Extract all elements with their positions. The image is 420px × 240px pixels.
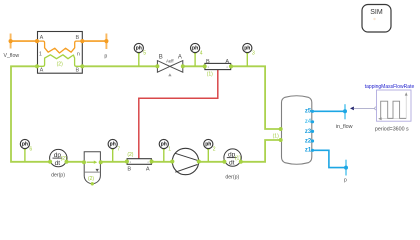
svg-text:V_flow: V_flow: [4, 53, 20, 59]
wire green dp1 to accumulator: [66, 161, 84, 163]
wire green pipe 1 to tank upper port: [231, 66, 281, 129]
svg-text:1: 1: [39, 51, 42, 57]
svg-text:p: p: [344, 178, 347, 184]
boundary V_flow terminal: [4, 34, 20, 60]
accumulator vessel (2): [82, 152, 103, 186]
SIM block: [362, 5, 391, 33]
svg-text:Aeff: Aeff: [166, 59, 174, 64]
wire green pump to dp2: [199, 161, 224, 163]
svg-text:B: B: [75, 35, 79, 41]
sensor ph4: [191, 43, 203, 66]
svg-text:SIM: SIM: [370, 9, 383, 16]
wire green dp2 to tank lower port: [241, 140, 280, 162]
svg-text:A: A: [225, 59, 229, 65]
svg-text:A: A: [178, 54, 182, 60]
connector line source to arrow: [354, 107, 375, 109]
in_flow terminal: [336, 104, 353, 130]
svg-text:2: 2: [213, 147, 216, 153]
tank lower port: [279, 138, 283, 142]
sensor ph7: [108, 139, 120, 161]
svg-text:ph: ph: [22, 142, 28, 148]
svg-text:B: B: [206, 59, 210, 65]
svg-text:z2: z2: [305, 138, 312, 144]
svg-text:B: B: [159, 54, 163, 60]
svg-text:A: A: [40, 35, 44, 41]
arrow into in_flow: [350, 107, 354, 111]
pump: [170, 148, 201, 174]
svg-text:(1): (1): [207, 72, 213, 78]
source port circle: [375, 107, 378, 110]
svg-text:ph: ph: [205, 142, 211, 148]
svg-text:ph: ph: [110, 142, 116, 148]
sensor dp/dt (2) der(p): [48, 149, 68, 178]
svg-text:4: 4: [200, 51, 203, 57]
sensor dp/dt (1) der(p): [222, 149, 242, 180]
wire green valve to pipe 1: [183, 65, 205, 67]
sensor ph2: [204, 139, 216, 161]
svg-text:in_flow: in_flow: [336, 124, 353, 130]
svg-text:(2): (2): [57, 62, 63, 68]
svg-text:5: 5: [143, 51, 146, 57]
sensor ph3: [243, 43, 255, 66]
svg-text:z1: z1: [305, 148, 312, 154]
pipe tube (1) top: [203, 59, 234, 78]
svg-text:3: 3: [252, 51, 255, 57]
valve Aeff: [155, 54, 184, 76]
wire cyan z5 to in_flow terminal: [313, 110, 346, 112]
wire orange HX to p boundary: [82, 40, 106, 42]
p terminal bottom: [344, 160, 348, 184]
svg-text:tappingMassFlowRate: tappingMassFlowRate: [365, 84, 415, 90]
tank (1): [282, 96, 312, 165]
boundary p terminal: [104, 34, 108, 60]
tank upper port: [279, 127, 283, 131]
svg-text:n: n: [77, 51, 80, 57]
svg-text:z3: z3: [305, 129, 312, 135]
sensor ph6: [20, 139, 32, 161]
svg-text:ph: ph: [161, 142, 167, 148]
tank level labels z5-z1: [305, 109, 314, 154]
pipe tube (2) bottom: [125, 152, 154, 172]
heat exchanger (2): [35, 32, 85, 74]
svg-text:ph: ph: [136, 46, 142, 52]
svg-text:dt: dt: [55, 160, 61, 167]
wire green accumulator to pipe 2: [101, 161, 127, 163]
svg-text:A: A: [146, 166, 150, 172]
svg-text:z4: z4: [305, 119, 312, 125]
svg-text:z5: z5: [305, 109, 312, 115]
sensor ph5: [134, 43, 146, 66]
svg-text:(1): (1): [273, 133, 279, 139]
svg-text:(2): (2): [88, 176, 94, 182]
svg-text:(1): (1): [235, 156, 241, 162]
svg-text:(2): (2): [127, 152, 133, 158]
sensor ph1: [159, 139, 171, 161]
svg-text:A: A: [40, 68, 44, 74]
wire orange V_flow to HX: [11, 40, 37, 42]
svg-text:ph: ph: [244, 46, 250, 52]
wire green HX left down to bottom line: [11, 66, 50, 162]
red heat wire pipe1 to pipe2: [139, 70, 218, 159]
svg-text:p: p: [104, 54, 107, 60]
svg-text:dt: dt: [229, 160, 235, 167]
svg-text:7: 7: [117, 147, 120, 153]
svg-text:(2): (2): [61, 156, 67, 162]
svg-text:B: B: [127, 166, 131, 172]
svg-text:1: 1: [168, 147, 171, 153]
svg-text:6: 6: [29, 147, 32, 153]
wire cyan z1 to p terminal: [313, 150, 347, 167]
svg-text:der(p): der(p): [51, 173, 65, 179]
wire green HX right to valve: [82, 65, 157, 67]
wire green pipe 2 to pump: [152, 161, 173, 163]
source tappingMassFlowRate: [365, 84, 415, 132]
svg-text:der(p): der(p): [225, 174, 239, 180]
svg-text:ph: ph: [192, 46, 198, 52]
svg-text:period=3600 s: period=3600 s: [375, 126, 409, 132]
svg-text:B: B: [75, 68, 79, 74]
